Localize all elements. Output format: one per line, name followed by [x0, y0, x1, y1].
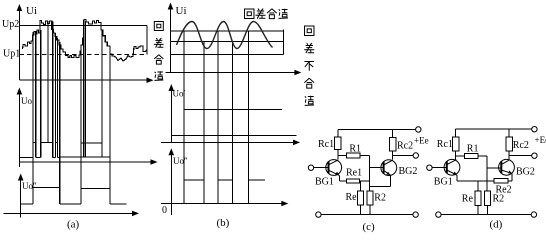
- svg-text:Up2: Up2: [2, 19, 19, 30]
- svg-text:R1: R1: [349, 144, 361, 155]
- svg-text:BG2: BG2: [399, 166, 418, 177]
- svg-text:0: 0: [162, 205, 167, 216]
- svg-text:(a): (a): [67, 219, 80, 231]
- svg-text:(b): (b): [217, 217, 230, 229]
- svg-text:Re1: Re1: [346, 167, 362, 178]
- svg-text:Rc2: Rc2: [397, 141, 413, 152]
- svg-text:R2: R2: [374, 193, 386, 204]
- svg-text:Uo″: Uo″: [22, 181, 37, 191]
- svg-text:Uo′: Uo′: [173, 89, 186, 99]
- svg-text:Rc2: Rc2: [513, 140, 529, 151]
- svg-text:+Ee: +Ee: [535, 135, 546, 145]
- svg-text:Ui: Ui: [176, 5, 187, 17]
- svg-text:Uo″: Uo″: [173, 156, 188, 166]
- svg-text:(c): (c): [363, 221, 376, 233]
- svg-text:R2: R2: [493, 194, 505, 205]
- svg-text:Ui: Ui: [26, 5, 37, 17]
- svg-text:BG2: BG2: [516, 167, 535, 178]
- svg-text:Re: Re: [462, 194, 474, 205]
- svg-text:+Ee: +Ee: [414, 136, 429, 146]
- svg-text:Re: Re: [346, 192, 358, 203]
- svg-text:BG1: BG1: [315, 177, 334, 188]
- svg-text:Uo′: Uo′: [21, 96, 34, 106]
- svg-text:BG1: BG1: [434, 177, 453, 188]
- svg-text:Rc1: Rc1: [318, 139, 334, 150]
- svg-text:R1: R1: [467, 144, 479, 155]
- svg-text:Rc1: Rc1: [437, 139, 453, 150]
- svg-text:Up1: Up1: [3, 48, 20, 59]
- svg-text:(d): (d): [490, 219, 503, 231]
